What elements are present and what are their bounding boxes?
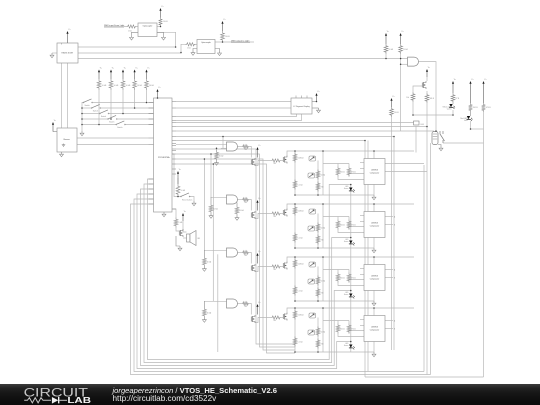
- wire rail x350: [350, 185, 352, 353]
- trimmer ch3 P2: [308, 279, 315, 284]
- trimmer ch1 P2: [308, 173, 315, 178]
- resistor R4 10k: [221, 31, 225, 42]
- ground U1: [51, 53, 53, 55]
- resistor RS1 10k: [97, 79, 101, 90]
- svg-text:470 Ω: 470 Ω: [351, 329, 356, 331]
- wire col1: [98, 90, 100, 125]
- wire ch1 comp out B: [385, 171, 427, 173]
- junction dots: [385, 58, 387, 60]
- svg-text:10 kΩ: 10 kΩ: [239, 210, 244, 212]
- wire ch3 comp left pins: [360, 268, 364, 270]
- wire D2 bottom: [470, 121, 472, 129]
- resistor ch1 Rd 740: [271, 159, 281, 162]
- gate U1 AND: [227, 142, 238, 151]
- svg-text:LM2903: LM2903: [371, 170, 378, 172]
- svg-text:10 kΩ: 10 kΩ: [114, 85, 119, 87]
- resistor R20 10k: [390, 107, 394, 117]
- switch SW3: [99, 113, 100, 114]
- wire PIC long y126: [176, 126, 427, 128]
- wire ch2 col x323: [322, 204, 324, 248]
- resistor ch2 R6 470: [347, 220, 351, 230]
- wire ch1 sense to comp: [338, 177, 364, 180]
- wire ch1 gate out: [238, 146, 243, 148]
- wire ch4 comp left pins: [360, 319, 364, 321]
- V+ supply U3: [52, 124, 54, 132]
- transistor ch3 Qb: [282, 263, 284, 268]
- wire gate3 B stub: [227, 253, 235, 255]
- wire ch2 gate out: [238, 199, 243, 201]
- IC U3 LCD: [57, 128, 77, 152]
- svg-text:10 kΩ: 10 kΩ: [321, 175, 326, 177]
- resistor R5 1k: [186, 43, 196, 46]
- svg-text:470 Ω: 470 Ω: [486, 107, 491, 109]
- wire ring3: [141, 189, 351, 366]
- wire bypass 3: [176, 159, 295, 350]
- svg-text:LM2903: LM2903: [371, 223, 378, 225]
- IC U1 MAX485: [57, 43, 78, 63]
- svg-text:740: 740: [273, 163, 276, 165]
- svg-text:4.08 kΩ: 4.08 kΩ: [298, 158, 305, 160]
- wire speaker out: [183, 237, 187, 239]
- svg-text:470 Ω: 470 Ω: [351, 278, 356, 280]
- ground OK1 b: [163, 35, 165, 37]
- wire ch2 mid column: [317, 214, 319, 249]
- transistor ch2 Qa: [250, 213, 252, 218]
- resistor ch3 R1 4.08k: [293, 259, 297, 269]
- gate U4 AND: [227, 299, 238, 308]
- wire R5 bottom node: [196, 43, 198, 45]
- wire ch4 left column: [294, 308, 296, 352]
- svg-text:10 kΩ: 10 kΩ: [149, 85, 154, 87]
- svg-text:LC Segment Display: LC Segment Display: [293, 105, 309, 108]
- resistor ch4 Rd 740: [271, 316, 281, 319]
- svg-text:Switch: Switch: [85, 104, 90, 107]
- wire gate2 B stub: [227, 200, 238, 202]
- svg-text:10 kΩ: 10 kΩ: [321, 228, 326, 230]
- wire V+ to Q5: [426, 77, 428, 81]
- transistor ch4 Qa: [250, 317, 252, 322]
- resistor R10 47: [451, 93, 455, 103]
- wire drop gate3 A: [204, 159, 226, 250]
- wire sw row3: [109, 113, 154, 115]
- wire col4: [134, 90, 136, 108]
- V+ supply R3: [160, 10, 162, 18]
- wire reset node: [172, 154, 181, 197]
- svg-text:740: 740: [244, 149, 247, 151]
- wire PIC to display com1: [176, 114, 297, 117]
- svg-text:1 kΩ: 1 kΩ: [179, 222, 183, 224]
- wire gate3 B drop: [217, 254, 219, 352]
- wire bypass 4: [176, 164, 295, 353]
- V+ supply reset: [177, 173, 179, 184]
- resistor ch4 R2 1.1k: [293, 337, 297, 347]
- wire col2: [110, 90, 112, 119]
- wire ch3 mid column: [317, 267, 319, 302]
- wire ch2 left column: [294, 204, 296, 248]
- wire sw common: [82, 103, 84, 132]
- wire PIC long y140: [176, 141, 365, 378]
- svg-text:740: 740: [273, 269, 276, 271]
- resistor ch4 R4 740: [316, 339, 320, 349]
- V+ supply ch4 Q a: [257, 306, 259, 315]
- wire PIC to display seg1: [176, 101, 291, 103]
- wire ch1 comp out A: [385, 163, 424, 165]
- resistor R3 10k: [159, 18, 163, 27]
- resistor ch2 R4 740: [316, 235, 320, 245]
- svg-text:4.08 kΩ: 4.08 kΩ: [298, 264, 305, 266]
- comparator ch2 LM2903: [364, 212, 385, 238]
- IC U4 LC display: [291, 98, 312, 114]
- V+ supply ch1 Q a: [257, 149, 259, 158]
- svg-text:740: 740: [321, 240, 324, 242]
- wire ch4 bottom rail: [295, 351, 374, 353]
- switch SW5: [116, 124, 117, 125]
- wire sw row4: [117, 118, 153, 120]
- wire reset gnd hook: [190, 197, 195, 202]
- svg-text:740: 740: [244, 255, 247, 257]
- V+ supply RS5: [146, 72, 148, 80]
- resistor ch4 R1 4.08k: [293, 310, 297, 320]
- ground ch3 pulldown: [203, 267, 205, 269]
- trimmer ch2 P1: [309, 209, 316, 214]
- svg-text:1.1 kΩ: 1.1 kΩ: [298, 291, 304, 293]
- svg-text:4.08 kΩ: 4.08 kΩ: [298, 315, 305, 317]
- svg-text:Buzzer: Buzzer: [64, 139, 71, 141]
- V+ supply R11: [483, 83, 485, 103]
- wire ch4 top rail: [287, 308, 414, 313]
- wire gate1 input B: [221, 147, 227, 149]
- svg-text:10 kΩ: 10 kΩ: [403, 49, 408, 51]
- transistor ch4 Qb: [282, 314, 284, 319]
- wire speaker feed: [172, 209, 176, 218]
- resistor ch3 Rg 740: [242, 251, 249, 254]
- wire gate4 B stub: [227, 304, 235, 306]
- wire ch3 sense top: [323, 269, 349, 271]
- svg-text:Switch: Switch: [117, 126, 122, 129]
- resistor ch3 Rd 740: [271, 265, 281, 268]
- svg-text:Optocoupler: Optocoupler: [201, 41, 211, 44]
- wire gate1 input A: [176, 143, 227, 145]
- wire ch3 comp out A: [385, 269, 393, 271]
- V+ supply U1: [67, 33, 69, 43]
- svg-text:B: B: [394, 329, 395, 331]
- svg-text:10 kΩ: 10 kΩ: [389, 49, 394, 51]
- LED ch2 green: [349, 241, 352, 244]
- wire PIC to display seg2: [176, 107, 291, 109]
- comparator ch4 LM2903: [364, 316, 385, 342]
- resistor RS4 10k: [133, 79, 137, 90]
- wire ch4 comp out A: [385, 320, 393, 322]
- resistor ch2 Rg 740: [242, 198, 249, 201]
- wire ch1 bottom rail: [295, 194, 374, 196]
- svg-text:Reset button: Reset button: [182, 199, 192, 202]
- resistor ch2 Rd 740: [271, 212, 281, 215]
- resistor ch1 R3 10k: [316, 170, 320, 180]
- wire ring1: [148, 179, 351, 360]
- V+ supply R20: [391, 100, 393, 107]
- V+ supply ch2 Q a: [257, 202, 259, 211]
- wire ch3 sense to comp: [338, 283, 364, 286]
- wire ch2 bottom rail: [295, 247, 374, 249]
- resistor ch1 pulldown: [216, 148, 218, 150]
- resistor ch2b pulldown: [236, 203, 238, 206]
- svg-text:301 Ω: 301 Ω: [430, 98, 435, 100]
- wire rail K1: [423, 165, 425, 372]
- wire relay arm out: [443, 142, 484, 144]
- svg-text:10 kΩ: 10 kΩ: [126, 85, 131, 87]
- svg-text:10k: 10k: [406, 97, 409, 99]
- wire ch1 top rail: [287, 151, 414, 156]
- wire X1 drop: [415, 126, 417, 153]
- resistor ch2 R5 301: [336, 220, 340, 230]
- wire OK1 R link: [137, 26, 139, 28]
- resistor R6 10k: [384, 44, 388, 54]
- wire bypass 2: [176, 154, 295, 347]
- ground OK2 b: [219, 51, 221, 53]
- svg-text:1.1 kΩ: 1.1 kΩ: [298, 342, 304, 344]
- wire ch4 col x323: [322, 308, 324, 352]
- V+ supply U2: [157, 91, 159, 98]
- wire LCD to PIC a: [77, 137, 149, 139]
- V+ supply ch3 Q a: [257, 255, 259, 264]
- svg-text:740: 740: [321, 187, 324, 189]
- wire ch4 mid column: [317, 318, 319, 353]
- wire rail K2: [426, 103, 428, 375]
- trimmer ch3 P1: [309, 262, 316, 267]
- wire ch3 left column: [294, 257, 296, 301]
- wire ch4 sense top: [323, 320, 349, 322]
- V+ supply speaker: [182, 215, 184, 221]
- resistor ch3 R2 1.1k: [293, 286, 297, 296]
- switch SW4: [108, 119, 109, 120]
- LED ch4 green: [349, 345, 352, 348]
- wire ch2 comp out A: [385, 216, 393, 218]
- V+ supply D2: [470, 83, 472, 103]
- switch SW2: [91, 108, 92, 109]
- switch SW6 reset: [181, 196, 182, 197]
- resistor ch1 R1 4.08k: [293, 153, 297, 163]
- wire bypass 1: [176, 149, 295, 344]
- ground speaker: [179, 246, 181, 248]
- svg-text:10 kΩ: 10 kΩ: [225, 36, 230, 38]
- svg-text:LM2903: LM2903: [371, 276, 378, 278]
- ground RLY1: [440, 146, 442, 148]
- wire U1 DI to R2: [78, 44, 186, 53]
- resistor RS5 10k: [145, 79, 149, 90]
- wire ch3 driver link: [255, 267, 271, 272]
- LED D2 red: [467, 116, 470, 119]
- CircuitLab logo: [0, 384, 110, 405]
- V+ supply RS1: [98, 72, 100, 80]
- svg-text:works: works: [447, 109, 452, 111]
- wire U1 pin stubs bottom: [61, 63, 63, 128]
- transistor ch1 Qa: [250, 160, 252, 165]
- wire drop gate4 A: [212, 164, 214, 301]
- wire ch2 driver link: [255, 214, 271, 219]
- ground ch1: [373, 195, 375, 197]
- svg-text:Green: Green: [344, 345, 349, 347]
- resistor ch4 R3 10k: [316, 327, 320, 337]
- wire ch3 comp out B: [385, 277, 393, 279]
- svg-text:PIC16F876A: PIC16F876A: [158, 156, 170, 159]
- V+ supply RS2: [110, 72, 112, 80]
- wire ch2 comp left pins: [360, 215, 364, 217]
- svg-text:10 kΩ: 10 kΩ: [213, 209, 218, 211]
- svg-text:301 Ω: 301 Ω: [340, 225, 345, 227]
- ground ch4: [373, 352, 375, 354]
- V+ supply Q5: [426, 71, 428, 77]
- V+ supply RS4: [134, 72, 136, 80]
- wire ch2 comp out B: [385, 224, 393, 226]
- wire ring4: [137, 194, 351, 369]
- resistor ch1 R4 740: [316, 182, 320, 192]
- svg-text:Comparator: Comparator: [370, 278, 380, 281]
- wire ch2 sense to comp: [338, 230, 364, 233]
- wire R6 stub: [385, 54, 387, 59]
- wire ch3 col x323: [322, 257, 324, 301]
- wire Q5 gate to R8: [413, 86, 422, 92]
- LED ch1 green: [349, 188, 352, 191]
- crystal X1: [414, 121, 420, 125]
- trimmer ch1 P1: [309, 156, 316, 161]
- V+ supply RS3: [122, 72, 124, 80]
- wire ch1 driver link: [255, 161, 271, 166]
- wire sw row2: [101, 107, 154, 109]
- wire ch1 sense top: [323, 163, 349, 165]
- svg-text:Green: Green: [344, 241, 349, 243]
- svg-text:LM2903: LM2903: [371, 327, 378, 329]
- wire ring2: [144, 184, 351, 363]
- LED D1 yellow: [449, 104, 452, 107]
- trimmer ch4 P1: [309, 313, 316, 318]
- resistor R11 470: [482, 103, 486, 112]
- switch SW1: [83, 102, 84, 103]
- gate U6 AND: [408, 57, 419, 66]
- ground ch4 pulldown: [203, 318, 205, 320]
- resistor ch1 R5 301: [336, 167, 340, 177]
- resistor ch2 R1 4.08k: [293, 206, 297, 216]
- svg-text:Green: Green: [344, 188, 349, 190]
- ground ch2b pulldown: [236, 216, 238, 218]
- IC U2 PIC16F876A: [154, 98, 173, 212]
- wire sw row5: [125, 124, 153, 126]
- wire ring5: [134, 199, 424, 372]
- resistor ch1 R2 1.1k: [293, 180, 297, 190]
- comparator ch3 LM2903: [364, 265, 385, 291]
- wire ch2 top rail: [287, 204, 414, 209]
- svg-text:470 Ω: 470 Ω: [351, 225, 356, 227]
- ground U2: [163, 212, 165, 214]
- resistor ch3 pulldown: [203, 250, 205, 257]
- wire ch1 comp left pins: [360, 162, 364, 164]
- svg-text:Comparator: Comparator: [370, 329, 380, 332]
- wire ch1 col x323: [322, 151, 324, 195]
- V+ supply D1: [452, 83, 454, 93]
- svg-text:10 kΩ: 10 kΩ: [207, 313, 212, 315]
- svg-text:10 kΩ: 10 kΩ: [137, 85, 142, 87]
- ground ch2 pulldown: [210, 214, 212, 216]
- svg-text:740: 740: [244, 202, 247, 204]
- svg-text:fails: fails: [464, 120, 467, 122]
- wire drop gate2 A: [211, 154, 227, 197]
- wire U1 left pin to ground: [52, 52, 57, 54]
- svg-text:301 Ω: 301 Ω: [473, 107, 478, 109]
- wire OK2 output to DMX out: [215, 41, 254, 43]
- transistor ch2 Qb: [282, 210, 284, 215]
- opto-isolator OK2: [197, 40, 215, 54]
- wire reset R pull: [177, 178, 179, 184]
- svg-text:740: 740: [273, 320, 276, 322]
- wire U1 RO to optocoupler loop: [78, 32, 176, 47]
- wire ch3 top rail: [287, 257, 414, 262]
- wire PIC to display com2: [176, 114, 302, 121]
- trimmer ch4 P2: [308, 330, 315, 335]
- wire LCD to PIC b: [77, 144, 149, 146]
- wire PIC to X1: [176, 122, 414, 124]
- svg-text:301 Ω: 301 Ω: [340, 172, 345, 174]
- resistor R9 301: [425, 93, 429, 103]
- svg-text:Green: Green: [344, 294, 349, 296]
- wire rail D1 node: [413, 114, 453, 116]
- LED ch3 green: [349, 294, 352, 297]
- wire sw row1: [93, 102, 154, 104]
- svg-text:DMX output to Light: DMX output to Light: [231, 39, 250, 42]
- resistor RS3 10k: [121, 79, 125, 90]
- svg-text:10 kΩ: 10 kΩ: [102, 85, 107, 87]
- V+ supply R6: [385, 35, 387, 44]
- ground ch2: [373, 248, 375, 250]
- transistor ch1 Qb: [282, 157, 284, 162]
- resistor ch1 R6 470: [347, 167, 351, 177]
- transistor Q6 NMOS: [178, 231, 180, 236]
- wire rail R20 down: [391, 117, 393, 350]
- svg-text:Switch: Switch: [93, 109, 98, 112]
- trimmer ch2 P2: [308, 226, 315, 231]
- wire ch4 comp out B: [385, 328, 393, 330]
- ground ch1 pulldown: [216, 161, 218, 163]
- ground ch3: [373, 301, 375, 303]
- ground switch common: [81, 131, 83, 133]
- svg-text:1.1 kΩ: 1.1 kΩ: [298, 185, 304, 187]
- svg-text:10 kΩ: 10 kΩ: [181, 190, 186, 192]
- wire OK1 input: [104, 26, 127, 28]
- svg-text:Comparator: Comparator: [370, 172, 380, 175]
- svg-text:740: 740: [321, 293, 324, 295]
- wire col5: [146, 90, 148, 103]
- wire rail K4: [483, 129, 485, 377]
- resistor RS2 10k: [109, 79, 113, 90]
- wire ch4 gate out: [238, 303, 243, 305]
- wire ring6: [131, 204, 431, 375]
- svg-text:740: 740: [273, 216, 276, 218]
- resistor ch4 Rg 740: [242, 302, 249, 305]
- wire ch4 sense to comp: [338, 334, 364, 337]
- wire relay top feed: [176, 130, 434, 132]
- footer bar: [0, 384, 540, 405]
- svg-text:470 Ω: 470 Ω: [351, 172, 356, 174]
- resistor R13 10k: [176, 184, 180, 197]
- resistor ch2 pulldown: [210, 197, 212, 204]
- transistor Q5 PMOS: [421, 83, 423, 88]
- wire R11 bottom: [483, 112, 485, 129]
- svg-text:4.08 kΩ: 4.08 kΩ: [298, 211, 305, 213]
- opto-isolator OK1: [138, 23, 157, 37]
- wire node D2-R11: [471, 128, 484, 130]
- resistor ch3 R3 10k: [316, 276, 320, 286]
- wire ch2 sense top: [323, 216, 349, 218]
- svg-text:301 Ω: 301 Ω: [340, 329, 345, 331]
- wire ch1 left column: [294, 151, 296, 195]
